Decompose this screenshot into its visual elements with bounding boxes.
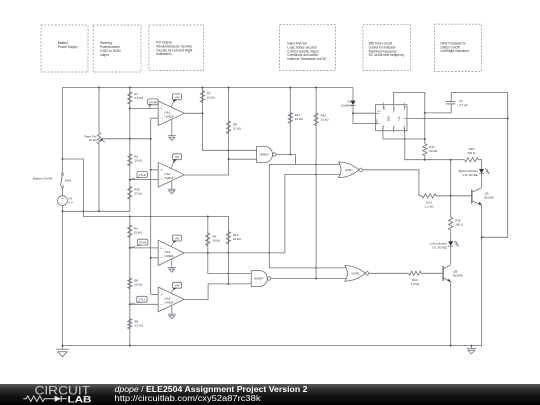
- logic gate NOR1: [339, 162, 363, 178]
- wire R17 bottom lead: [424, 156, 426, 160]
- wire upper divider chain: [129, 88, 131, 200]
- wire pot riser top: [98, 88, 100, 134]
- svg-text:1N4004: 1N4004: [341, 104, 352, 108]
- logic gate NAND7: [251, 271, 270, 287]
- svg-text:dpope / ELE2504 Assignment Pro: dpope / ELE2504 Assignment Project Versi…: [115, 385, 309, 394]
- wire OA1 inverting input: [151, 117, 159, 119]
- svg-text:555: 555: [387, 116, 391, 121]
- wire left indicator riser: [450, 160, 452, 217]
- svg-text:http://circuitlab.com/cxy52a87: http://circuitlab.com/cxy52a87rc38k: [115, 394, 261, 403]
- ground (OA1): [168, 119, 176, 140]
- svg-text:10 kΩ: 10 kΩ: [212, 238, 221, 242]
- wire NAND7 output to NOR2 input 2: [271, 278, 348, 280]
- capacitor C1 4.7uF: [446, 99, 468, 107]
- wire D7 cathode to 555 pins: [353, 106, 376, 113]
- wire R14 to Q6 base: [421, 272, 443, 274]
- resistor R15 100: [449, 217, 464, 230]
- transistor Q5 BC546: [472, 188, 494, 205]
- svg-text:LTL-307EE: LTL-307EE: [432, 245, 447, 249]
- svg-text:10 kΩ: 10 kΩ: [233, 126, 242, 130]
- svg-text:RESET: RESET: [376, 118, 378, 125]
- svg-text:BC546: BC546: [485, 196, 495, 200]
- svg-text:5.6 kΩ: 5.6 kΩ: [134, 96, 144, 100]
- wire 555 threshold pin to flasher node: [405, 131, 451, 160]
- wire OA2 non-inverting input: [151, 169, 159, 171]
- op-amp OA1 LM324: [158, 101, 184, 126]
- wire R10 column: [227, 217, 229, 284]
- wire R18 to LED1: [478, 160, 481, 169]
- wire NOR2 output to R14: [368, 272, 408, 274]
- svg-text:10 kΩ: 10 kΩ: [134, 159, 143, 163]
- wire OA4 non-inverting input: [151, 293, 159, 295]
- svg-text:TRIG: TRIG: [393, 124, 395, 129]
- wire OA2 output: [184, 174, 228, 176]
- transistor Q6 BC546: [443, 265, 463, 282]
- ground (OA2): [168, 181, 176, 194]
- op-amp OA4 LM324: [158, 287, 184, 312]
- flag VTHR: [148, 99, 158, 109]
- wire VTHL node to OA3 +: [130, 247, 158, 249]
- wire OA4 output to NAND7 input 2: [184, 284, 252, 299]
- svg-text:NOR2: NOR2: [352, 271, 360, 275]
- wire LED1 to Q5 collector: [481, 174, 483, 188]
- logic gate NAND4: [257, 147, 276, 163]
- annotation box: Nand And Nor logic gates: [279, 25, 335, 71]
- svg-text:1.2 kΩ: 1.2 kΩ: [425, 204, 435, 208]
- wire OA3 inverting input: [151, 257, 159, 259]
- svg-text:Battery On/Off: Battery On/Off: [33, 176, 52, 180]
- svg-text:BC546: BC546: [453, 273, 463, 277]
- diode D7 1N4004: [341, 100, 356, 108]
- battery switch SW1: [61, 173, 72, 188]
- wire R9 column: [207, 217, 209, 253]
- wire R15 to LED2: [450, 230, 452, 241]
- resistor R6 10k: [128, 278, 143, 289]
- IC U2 555 timer: [376, 103, 407, 133]
- wire 555 reset loop: [353, 113, 376, 123]
- voltage source V3 9V: [58, 196, 73, 206]
- svg-text:9 V: 9 V: [68, 201, 73, 205]
- wire sense riser (wiper bus): [150, 118, 152, 294]
- svg-text:output: output: [100, 53, 109, 57]
- wire flasher node to R18: [451, 159, 465, 161]
- annotation box: Steering Potentiometer: [93, 25, 141, 72]
- flag VTLR: [130, 172, 147, 180]
- wire battery tap to +9V distribution: [63, 159, 229, 217]
- wire left battery rail lower: [62, 206, 64, 346]
- svg-text:+9V: +9V: [174, 237, 179, 241]
- wire bottom ground rail: [63, 345, 482, 347]
- wire LED2 to Q6 collector: [450, 246, 452, 264]
- wire R7 column: [201, 88, 203, 114]
- wire Q5 emitter riser: [481, 205, 483, 346]
- svg-text:+9V: +9V: [174, 95, 179, 99]
- wire OA3 output to NOR1 input 2: [184, 175, 342, 253]
- svg-text:U2: U2: [397, 116, 401, 120]
- wire VTLL node to OA4 -: [130, 303, 158, 305]
- resistor R8b 10k: [226, 121, 241, 134]
- wire VTHR node to OA1 +: [130, 107, 158, 109]
- potentiometer Steer Pot 10k: [84, 133, 105, 145]
- wire R12 column: [315, 88, 317, 279]
- svg-text:NAND4: NAND4: [259, 153, 269, 157]
- svg-text:LM324: LM324: [164, 176, 174, 180]
- wire OA1 out down to NAND4 input 1: [202, 113, 256, 150]
- resistor R4 22k: [128, 225, 143, 238]
- flag VTHL: [130, 239, 148, 248]
- wire lower divider chain: [129, 217, 131, 346]
- annotation box: Pot Output Window Detector: [149, 25, 204, 70]
- logic gate NOR2: [345, 266, 369, 282]
- footer bar with CircuitLab logo and title: [0, 384, 540, 405]
- label Battery On/Off: [33, 176, 52, 180]
- wire 555 output to right rail: [407, 117, 508, 119]
- svg-text:4.7 μF: 4.7 μF: [459, 103, 468, 107]
- svg-text:LTL-307EE: LTL-307EE: [463, 173, 478, 177]
- resistor R8 6.2k: [128, 319, 144, 329]
- wire C1 top to right rail: [451, 93, 508, 238]
- resistor R14 1.2k: [409, 271, 422, 286]
- svg-text:LAB: LAB: [68, 395, 92, 405]
- wire battery minus to R36 bottom: [63, 199, 130, 211]
- svg-text:10 kΩ: 10 kΩ: [295, 117, 304, 121]
- flag +9V (OA4): [171, 282, 181, 293]
- flag +9V (OA3): [171, 235, 181, 247]
- svg-text:LM324: LM324: [164, 300, 174, 304]
- svg-text:6.2 kΩ: 6.2 kΩ: [134, 323, 144, 327]
- svg-text:10 kΩ: 10 kΩ: [207, 95, 216, 99]
- svg-text:GND: GND: [383, 125, 385, 130]
- op-amp OA3 LM324: [158, 240, 184, 265]
- svg-text:22 kΩ: 22 kΩ: [134, 230, 143, 234]
- wire Q6 emitter riser: [450, 281, 452, 345]
- resistor R13 1.2k: [422, 194, 436, 209]
- svg-text:Left/Right Indicators: Left/Right Indicators: [441, 49, 470, 53]
- svg-text:+9V: +9V: [174, 155, 179, 159]
- svg-text:+: +: [62, 197, 64, 201]
- wire pot riser bottom: [98, 144, 100, 212]
- wire 555 top loop to R17: [394, 92, 425, 143]
- resistor R18 100: [465, 147, 479, 162]
- svg-text:VTLR: VTLR: [139, 173, 146, 177]
- annotation box: Battery Power Supply: [41, 25, 88, 72]
- wire C1 bottom lead: [425, 104, 451, 113]
- svg-text:LM324: LM324: [164, 254, 174, 258]
- svg-text:SW1: SW1: [65, 178, 72, 182]
- wire NAND4 input 2: [229, 158, 257, 160]
- ground (OA3): [168, 259, 176, 272]
- resistor R7 10k: [200, 91, 215, 103]
- wire OA1 output to R7 bottom: [184, 112, 202, 114]
- svg-text:100 Ω: 100 Ω: [455, 223, 464, 227]
- resistor R10 10k: [226, 232, 241, 244]
- wire R11 column: [289, 88, 291, 155]
- wire crossing hops: [82, 117, 426, 274]
- resistor R2 10k: [128, 154, 143, 166]
- svg-text:NOR1: NOR1: [345, 168, 353, 172]
- svg-text:1.2 kΩ: 1.2 kΩ: [411, 282, 421, 286]
- svg-text:VTHR: VTHR: [149, 100, 157, 104]
- annotation box: 555 timer circuit: [363, 25, 411, 71]
- resistor R11 10k: [288, 113, 303, 123]
- LED right indicator LTL-307EE: [458, 168, 489, 177]
- wire pot wiper to sense riser: [102, 138, 151, 140]
- svg-text:CTRL: CTRL: [394, 106, 396, 111]
- wire VTLR node to OA2 -: [130, 179, 158, 181]
- svg-text:VTLL: VTLL: [138, 298, 145, 302]
- svg-text:33 kΩ: 33 kΩ: [134, 192, 143, 196]
- resistor R1 5.6k: [128, 92, 144, 104]
- wire D7 branch from rail: [352, 88, 354, 101]
- svg-text:Power Supply: Power Supply: [58, 45, 78, 49]
- svg-text:10 kΩ: 10 kΩ: [321, 117, 330, 121]
- wire R8 column / OA2 out riser: [228, 88, 230, 176]
- svg-text:RC circuit sets frequency: RC circuit sets frequency: [369, 53, 405, 57]
- wire NOR1 output to R13: [363, 170, 422, 196]
- LED left indicator LTL-307EE: [430, 241, 459, 250]
- resistor R12 10k: [314, 113, 329, 126]
- flag +9V (OA2): [171, 154, 181, 169]
- svg-text:62 kΩ: 62 kΩ: [429, 149, 438, 153]
- resistor R36 33k: [128, 186, 143, 199]
- flag VTLL: [130, 296, 147, 304]
- wire NAND4 output: [276, 155, 342, 165]
- svg-text:10 kΩ: 10 kΩ: [134, 282, 143, 286]
- op-amp OA2 LM324: [158, 162, 184, 187]
- svg-text:−: −: [62, 202, 64, 206]
- svg-text:+9V: +9V: [174, 284, 179, 288]
- flag +9V (OA1): [171, 94, 181, 107]
- ground (right): [467, 346, 477, 354]
- svg-text:100 Ω: 100 Ω: [467, 151, 476, 155]
- wire R9 node to NAND7 input 1: [208, 253, 252, 274]
- annotation box: NPN transistor switches: [435, 24, 482, 71]
- wire top +9V rail: [63, 87, 354, 89]
- svg-text:Indications: Indications: [156, 52, 172, 56]
- svg-text:NAND7: NAND7: [254, 277, 264, 281]
- resistor R9 10k: [206, 233, 221, 246]
- wire left battery rail mid: [62, 188, 64, 196]
- wire R13 to Q5 base: [436, 195, 472, 197]
- svg-text:VTHL: VTHL: [139, 241, 147, 245]
- wire 555 discharge pin: [383, 131, 425, 139]
- wire left battery rail upper: [62, 88, 64, 174]
- resistor R17 62k: [423, 144, 438, 156]
- svg-text:10 kΩ: 10 kΩ: [233, 237, 242, 241]
- svg-text:10 kΩ: 10 kΩ: [89, 138, 98, 142]
- svg-text:LM324: LM324: [164, 114, 174, 118]
- ground (battery): [56, 346, 69, 357]
- svg-text:Indictors Translators on/Off: Indictors Translators on/Off: [287, 57, 325, 61]
- ground (OA4): [168, 306, 176, 319]
- wire NAND4 out branch left: [269, 165, 348, 268]
